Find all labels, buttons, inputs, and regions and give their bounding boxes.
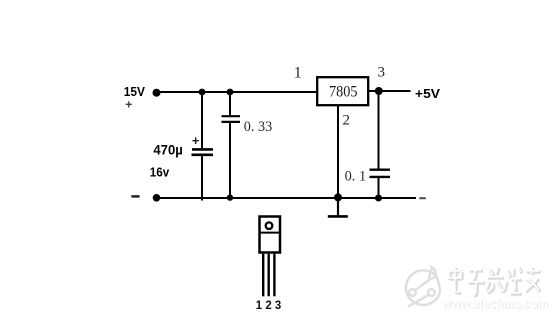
label - negative input terminal: [131, 195, 139, 197]
TO-220 package body: [260, 217, 281, 253]
TO-220 leg 1: [262, 254, 264, 296]
svg-text:www.elecfans.com: www.elecfans.com: [441, 296, 548, 311]
node junction bottom rail / C3: [375, 195, 382, 202]
capacitor C3 0.1 plates: [370, 168, 391, 170]
svg-text:0. 1: 0. 1: [345, 169, 367, 185]
node junction top rail / C1: [199, 89, 206, 96]
wire top rail from input to regulator pin 1: [157, 91, 317, 93]
TO-220 leg 2: [268, 254, 270, 296]
svg-text:1: 1: [294, 65, 302, 82]
capacitor C1 470u plates: [192, 148, 213, 151]
svg-text:1 2 3: 1 2 3: [256, 298, 282, 312]
node junction bottom rail / pin2 / ground: [334, 193, 342, 201]
svg-text:16v: 16v: [150, 165, 170, 180]
label - negative output terminal: [419, 197, 426, 199]
svg-text:+: +: [125, 98, 132, 112]
capacitor C2 0.33 plates: [222, 115, 241, 117]
wire bottom rail (common/ground): [157, 197, 416, 199]
svg-text:+: +: [192, 134, 199, 148]
wire branch of capacitor C1 (470u): [201, 91, 203, 148]
svg-text:0. 33: 0. 33: [244, 119, 272, 135]
TO-220 mounting hole: [266, 222, 273, 229]
TO-220 leg 3: [273, 254, 275, 296]
node output pin 3 junction: [375, 87, 383, 95]
node input + terminal: [153, 89, 161, 97]
svg-text:7805: 7805: [329, 84, 358, 101]
svg-text:2: 2: [343, 113, 351, 129]
ground symbol: [337, 198, 339, 216]
wire output from pin 3 to +5V: [368, 90, 411, 92]
node junction bottom rail / C2: [227, 194, 233, 200]
node junction top rail / C2: [227, 89, 234, 96]
svg-text:3: 3: [378, 65, 386, 81]
watermark logo circle (elecfans): [406, 267, 440, 307]
TO-220 tab divider: [259, 232, 281, 234]
wire branch of capacitor C2 (0.33): [229, 91, 231, 115]
wire regulator pin 2 to ground rail: [337, 105, 339, 198]
node input - terminal: [153, 194, 161, 202]
svg-text:+5V: +5V: [415, 86, 440, 101]
watermark text dianzifashaoyou (stylized strokes, embossed): [450, 268, 541, 296]
wire branch of capacitor C3 (0.1): [378, 91, 380, 169]
svg-text:470µ: 470µ: [153, 142, 182, 158]
regulator U1 7805 box: [317, 77, 368, 105]
